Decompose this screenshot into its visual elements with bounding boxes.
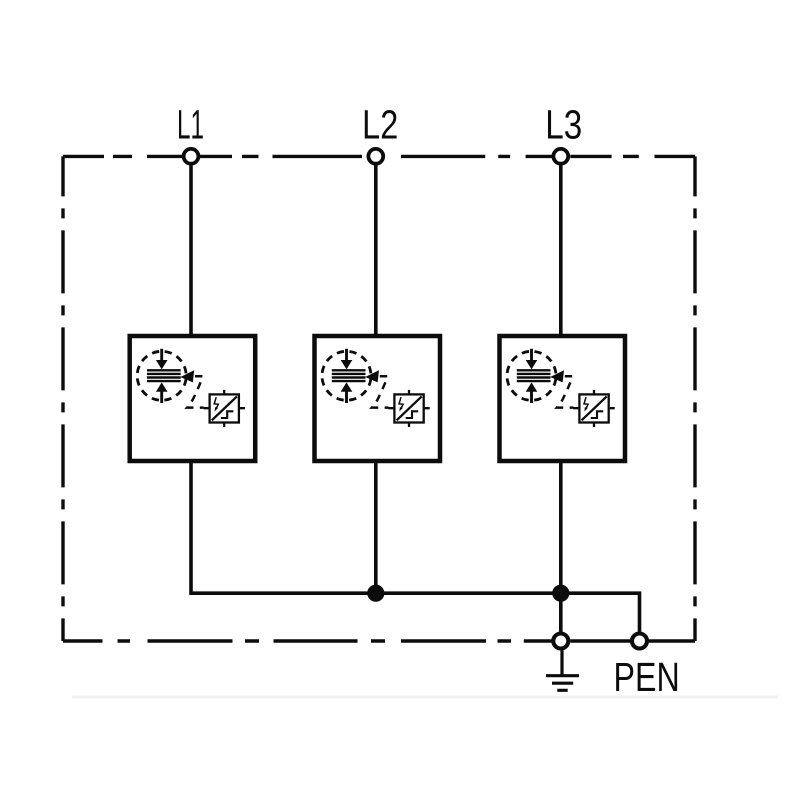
svg-text:PEN: PEN [614, 654, 680, 699]
svg-text:L3: L3 [545, 101, 582, 147]
svg-text:L2: L2 [362, 102, 398, 147]
svg-text:L1: L1 [177, 103, 204, 148]
